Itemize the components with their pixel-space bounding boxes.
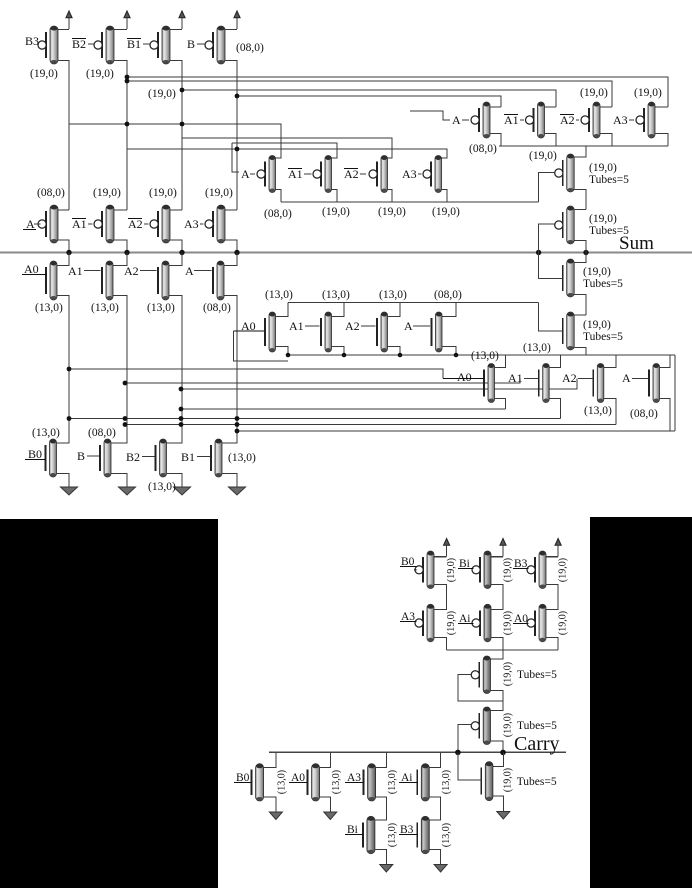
wire source mid A0 <box>276 347 289 356</box>
junction on Sum <box>179 250 184 255</box>
wire T3 drain to Carry <box>493 752 503 766</box>
wire T2 drain <box>491 709 504 711</box>
wire drain carry B0 <box>434 556 447 558</box>
wire drain carry Bi <box>491 556 503 558</box>
wire drain bottom B2 <box>167 442 183 443</box>
svg-text:A3: A3 <box>402 167 417 181</box>
wire gate feed upper right A <box>410 111 450 120</box>
bus wire net9 (A0 gate) <box>69 369 443 379</box>
transistor A1 (NMOS, under Sum) <box>102 261 113 300</box>
wire source carry bottom A3 to stacked NMOS <box>376 797 387 820</box>
transistor A2bar (PMOS, left row) <box>150 205 170 243</box>
svg-text:(13,0): (13,0) <box>584 405 612 417</box>
wire MN-T1 gate to Sum <box>539 253 563 279</box>
svg-text:B1: B1 <box>127 37 141 51</box>
VDD arrow for B2bar <box>124 11 130 29</box>
wire MP-T1 gate <box>539 173 555 203</box>
svg-text:A: A <box>185 264 194 278</box>
ground under carry B3 <box>434 854 447 872</box>
transistor B3 (PMOS) <box>38 26 58 64</box>
wire source rail upper-right row <box>499 145 668 147</box>
wire drain A3 <box>655 106 668 108</box>
junction mid source rail <box>398 353 403 358</box>
svg-text:(19,0): (19,0) <box>502 611 513 635</box>
wire drain carry bottom Ai <box>429 752 440 767</box>
wire drain mid A1 <box>332 303 345 317</box>
wire source rail mid row <box>288 354 675 356</box>
wire MP-T1 drain <box>574 146 586 157</box>
ground under carry A0 <box>324 802 337 820</box>
wire drain lower-right A2 <box>604 355 616 368</box>
wire source B down column <box>225 61 237 211</box>
svg-text:A2: A2 <box>344 167 359 181</box>
wire source carry A3 <box>434 638 447 650</box>
wire source carry bottom Ai to stacked NMOS <box>429 797 440 820</box>
wire drain carry bottom B0 <box>264 752 276 767</box>
wire drain B3 to VDD <box>58 29 69 31</box>
svg-text:A2: A2 <box>345 319 360 333</box>
svg-text:(08,0): (08,0) <box>37 187 65 199</box>
svg-text:(19,0): (19,0) <box>580 87 608 99</box>
junction on Sum <box>124 250 129 255</box>
svg-text:Tubes=5: Tubes=5 <box>517 776 557 788</box>
wire MN-T1 source <box>574 295 586 316</box>
transistor B (PMOS) <box>205 26 225 64</box>
svg-text:B: B <box>77 449 85 463</box>
svg-text:(08,0): (08,0) <box>264 208 292 220</box>
svg-text:A2: A2 <box>124 264 139 278</box>
wire source lower-right A2 <box>604 399 616 425</box>
svg-text:Tubes=5: Tubes=5 <box>583 278 623 290</box>
svg-text:Tubes=5: Tubes=5 <box>517 669 557 681</box>
transistor A3 (PMOS, upper right) <box>636 102 655 138</box>
transistor B2bar (PMOS) <box>94 26 114 64</box>
VDD arrow carry B3 <box>555 539 561 557</box>
wire drain bottom B1 <box>222 442 237 443</box>
transistor carry Bi (PMOS) <box>472 551 491 589</box>
svg-text:(19,0): (19,0) <box>503 662 514 686</box>
svg-text:A2: A2 <box>560 113 575 127</box>
ground under B0 <box>61 477 78 495</box>
black panel right <box>590 517 692 888</box>
wire source carry Bi <box>491 585 503 608</box>
VDD arrow for B3 <box>66 11 72 29</box>
wire rail down right side <box>674 355 676 431</box>
transistor B0 (NMOS, bottom row) <box>46 439 57 477</box>
wire drain B2bar to VDD <box>114 29 127 31</box>
wire drain B to VDD <box>225 29 237 31</box>
wire MP-T2 drain <box>574 209 586 211</box>
transistor A2bar (PMOS, middle row) <box>369 156 388 193</box>
transistor A1bar (PMOS, middle row) <box>313 156 332 193</box>
ground under B <box>119 477 136 495</box>
transistor A2 (NMOS, lower right) <box>593 364 604 403</box>
wire drain mid A0 <box>276 303 289 317</box>
VDD arrow carry B0 <box>444 539 450 557</box>
svg-text:(13,0): (13,0) <box>387 823 398 847</box>
wire source mid A2 <box>388 347 401 356</box>
junction Carry drain <box>500 750 506 756</box>
wire source A2 down <box>169 296 182 443</box>
transistor carry bottom B0 (NMOS) <box>252 764 264 801</box>
svg-text:B2: B2 <box>126 450 140 464</box>
svg-text:A2: A2 <box>128 217 143 231</box>
wire source A2bar <box>600 134 612 147</box>
junction mid source rail <box>286 353 291 358</box>
transistor A (NMOS, mid row) <box>432 312 443 352</box>
svg-text:(08,0): (08,0) <box>88 427 116 439</box>
wire drain bottom B0 <box>57 442 70 443</box>
wire drain A to Sum <box>224 253 237 266</box>
svg-text:(19,0): (19,0) <box>149 187 177 199</box>
svg-text:(19,0): (19,0) <box>634 87 662 99</box>
svg-text:(19,0): (19,0) <box>557 558 568 582</box>
wire carry pull-up rail <box>447 649 558 651</box>
wire MP-T1 source <box>574 190 586 210</box>
svg-text:Tubes=5: Tubes=5 <box>517 720 557 732</box>
wire drain B1bar to VDD <box>170 29 182 31</box>
transistor A (NMOS, under Sum) <box>213 261 224 300</box>
wire source left-row A3 to Sum <box>225 240 237 253</box>
VDD arrow for B <box>234 11 240 29</box>
wire T1 gate loop <box>458 675 503 701</box>
wire drain left-row A2bar <box>170 209 182 211</box>
svg-text:A1: A1 <box>289 319 304 333</box>
wire source A1 down <box>113 296 127 443</box>
carry T1 pill <box>471 656 490 694</box>
junction Carry gate <box>455 750 461 756</box>
svg-text:(13,0): (13,0) <box>147 302 175 314</box>
transistor A3 (PMOS, middle row) <box>423 156 442 193</box>
transistor A2 (NMOS, mid row) <box>377 312 388 352</box>
svg-text:(08,0): (08,0) <box>630 408 658 420</box>
transistor carry bottom B3 (NMOS) <box>417 816 429 853</box>
wire MN-T1 drain to Sum <box>574 253 586 263</box>
wire drain lower-right A1 <box>549 355 560 368</box>
svg-text:(13,0): (13,0) <box>32 427 60 439</box>
wire drain A1bar <box>545 106 557 108</box>
wire source carry bottom B3 <box>429 850 440 855</box>
wire source lower-right A <box>660 399 671 432</box>
transistor A1 (NMOS, lower right) <box>539 364 550 403</box>
wire net8 <box>127 149 447 158</box>
wire source A1bar <box>545 134 557 147</box>
transistor A0 (NMOS, mid row) <box>265 312 276 352</box>
svg-text:(13,0): (13,0) <box>322 289 350 301</box>
transistor carry bottom Bi (NMOS) <box>363 816 375 853</box>
wire source carry bottom Bi <box>375 850 386 855</box>
svg-text:(19,0): (19,0) <box>446 611 457 635</box>
transistor A3 (PMOS, left row) <box>205 205 225 243</box>
wire source left-row A1bar to Sum <box>114 240 127 253</box>
junction on Sum <box>66 250 71 255</box>
wire MN-T2 gate <box>539 303 563 332</box>
wire source carry B3 <box>546 585 558 608</box>
svg-text:A0: A0 <box>457 370 472 384</box>
wire MN-T2 drain <box>574 314 586 316</box>
ground under B2 <box>174 477 191 495</box>
wire drain carry A0 <box>546 608 558 610</box>
black panel left <box>0 519 218 888</box>
svg-text:A1: A1 <box>288 167 303 181</box>
wire T3 gate to Carry <box>458 752 481 780</box>
svg-text:A2: A2 <box>562 371 577 385</box>
svg-text:(08,0): (08,0) <box>469 143 497 155</box>
svg-text:(19,0): (19,0) <box>589 162 617 174</box>
transistor A (PMOS, middle row) <box>257 156 276 193</box>
svg-text:(13,0): (13,0) <box>441 823 452 847</box>
wire source carry bottom B0 <box>264 797 276 802</box>
wire source A <box>490 134 501 147</box>
wire drain lower-right A0 <box>495 355 506 368</box>
transistor MN-T1 pill <box>563 259 575 297</box>
wire drain left-row A1bar <box>114 209 127 211</box>
svg-text:(19,0): (19,0) <box>30 68 58 80</box>
svg-text:(19,0): (19,0) <box>583 319 611 331</box>
transistor carry A3 (PMOS) <box>415 604 434 642</box>
transistor MP-T2 pill <box>555 206 575 244</box>
bus wire net12 <box>181 408 506 410</box>
svg-text:(08,0): (08,0) <box>203 302 231 314</box>
wire drain left-row A3 <box>225 209 237 211</box>
svg-text:Carry: Carry <box>514 733 560 755</box>
svg-text:A0: A0 <box>24 262 39 276</box>
junction Sum gate-chain <box>536 250 541 255</box>
wire source bottom B <box>111 474 127 478</box>
wire source bottom B1 <box>222 474 237 478</box>
svg-text:(13,0): (13,0) <box>277 770 288 794</box>
svg-text:(19,0): (19,0) <box>148 88 176 100</box>
svg-text:(19,0): (19,0) <box>322 206 350 218</box>
bus wire net14 <box>125 424 616 426</box>
transistor A1bar (PMOS, left row) <box>94 205 114 243</box>
wire source carry bottom A0 <box>320 797 331 802</box>
wire source left-row A2bar to Sum <box>170 240 182 253</box>
svg-text:(19,0): (19,0) <box>557 611 568 635</box>
wire net6 <box>182 138 392 158</box>
svg-text:(13,0): (13,0) <box>523 342 551 354</box>
svg-text:(19,0): (19,0) <box>529 150 557 162</box>
svg-text:(13,0): (13,0) <box>91 302 119 314</box>
wire source carry B0 <box>434 585 447 608</box>
svg-text:Tubes=5: Tubes=5 <box>589 174 629 186</box>
node Carry rail <box>269 751 566 753</box>
svg-text:(13,0): (13,0) <box>265 289 293 301</box>
bus wire net4 <box>237 96 501 107</box>
svg-text:A: A <box>404 319 413 333</box>
wire gate feed row3 A <box>232 143 239 172</box>
wire drain carry B3 <box>546 556 558 558</box>
svg-text:A3: A3 <box>613 113 628 127</box>
svg-text:(19,0): (19,0) <box>378 206 406 218</box>
junction on Sum <box>234 250 239 255</box>
wire source A0 down <box>57 296 69 443</box>
wire drain rail mid row <box>288 302 539 304</box>
svg-text:A1: A1 <box>72 217 87 231</box>
svg-text:(19,0): (19,0) <box>432 206 460 218</box>
svg-text:(19,0): (19,0) <box>86 68 114 80</box>
ground under carry B0 <box>269 802 282 820</box>
wire T1 drain <box>491 650 504 659</box>
svg-text:B0: B0 <box>28 447 42 461</box>
wire drain lower-right A <box>660 355 671 368</box>
transistor carry Ai (PMOS) <box>472 604 491 642</box>
wire source bottom B2 <box>167 474 183 478</box>
wire source A1bar middle <box>332 190 338 203</box>
wire drain A1 to Sum <box>113 253 127 266</box>
transistor B1bar (PMOS) <box>150 26 170 64</box>
transistor B1 (NMOS, bottom row) <box>211 439 222 477</box>
wire drain A <box>490 106 501 108</box>
svg-text:A: A <box>241 167 250 181</box>
wire T1 source <box>491 691 504 709</box>
svg-text:B2: B2 <box>72 37 86 51</box>
wire drain A2bar <box>600 106 612 108</box>
wire gate feed mid A0 <box>234 331 289 361</box>
transistor carry bottom A3 (NMOS) <box>364 764 376 801</box>
wire T2 gate to Carry <box>458 725 472 753</box>
svg-text:(13,0): (13,0) <box>35 302 63 314</box>
ground under B1 <box>229 477 246 495</box>
svg-text:(19,0): (19,0) <box>503 713 514 737</box>
wire source carry Ai <box>491 638 503 650</box>
svg-text:Tubes=5: Tubes=5 <box>589 225 629 237</box>
wire drain carry bottom A3 <box>376 752 387 767</box>
wire net5 <box>69 124 281 158</box>
wire drain carry bottom B3 <box>429 819 440 822</box>
svg-text:A: A <box>26 217 35 231</box>
svg-text:(13,0): (13,0) <box>228 452 256 464</box>
wire drain carry Ai <box>491 608 503 610</box>
svg-text:A1: A1 <box>68 264 83 278</box>
transistor carry bottom Ai (NMOS) <box>417 764 429 801</box>
junction mid source rail <box>454 353 459 358</box>
wire source A3 middle <box>442 190 448 203</box>
transistor MN-T2 pill <box>563 312 575 350</box>
wire source mid A1 <box>332 347 345 356</box>
wire source mid A <box>442 347 456 356</box>
wire source A3 <box>655 134 668 147</box>
svg-text:(19,0): (19,0) <box>502 558 513 582</box>
svg-text:A: A <box>452 113 461 127</box>
transistor A1 (NMOS, mid row) <box>321 312 332 352</box>
wire MP-T2 source to Sum <box>574 241 586 253</box>
wire drain carry bottom Bi <box>375 819 386 822</box>
wire drain A2 to Sum <box>169 253 182 266</box>
wire source bottom B0 <box>57 474 70 478</box>
wire drain mid A <box>442 303 456 317</box>
bus wire net13 <box>69 418 561 420</box>
transistor A (PMOS, upper right) <box>471 102 490 138</box>
bus wire net15 <box>237 430 675 432</box>
transistor B (NMOS, bottom row) <box>100 439 111 477</box>
svg-text:Tubes=5: Tubes=5 <box>583 331 623 343</box>
wire T3 source <box>493 796 503 801</box>
svg-text:(13,0): (13,0) <box>379 289 407 301</box>
transistor MP-T1 pill <box>555 154 575 192</box>
wire source lower-right A1 <box>549 399 560 419</box>
wire source A2bar middle <box>388 190 393 203</box>
svg-text:A: A <box>622 371 631 385</box>
wire drain left-row A <box>58 209 69 211</box>
svg-text:(13,0): (13,0) <box>148 481 176 493</box>
svg-text:(08,0): (08,0) <box>236 42 264 54</box>
VDD arrow for B1bar <box>179 11 185 29</box>
wire source B1bar down column <box>170 61 182 211</box>
svg-text:(13,0): (13,0) <box>331 770 342 794</box>
transistor A1bar (PMOS, upper right) <box>526 102 545 138</box>
svg-text:B1: B1 <box>181 450 195 464</box>
transistor A0 (NMOS, lower right) <box>484 364 495 403</box>
svg-text:(19,0): (19,0) <box>589 213 617 225</box>
svg-text:B3: B3 <box>25 34 39 48</box>
wire MP-T2 gate to Sum <box>539 224 555 253</box>
bus wire net1 <box>127 77 668 107</box>
svg-text:(19,0): (19,0) <box>503 768 514 792</box>
transistor A2bar (PMOS, upper right) <box>581 102 600 138</box>
svg-text:B: B <box>187 37 195 51</box>
wire drain bottom B <box>111 442 127 443</box>
transistor A (PMOS, left row) <box>38 205 58 243</box>
wire drain A0 to Sum <box>57 253 69 266</box>
svg-text:(13,0): (13,0) <box>387 770 398 794</box>
wire source rail middle row <box>281 201 539 203</box>
svg-text:A1: A1 <box>508 371 523 385</box>
svg-text:(19,0): (19,0) <box>93 187 121 199</box>
wire source lower-right A0 <box>495 399 506 410</box>
ground under T3 <box>497 801 510 819</box>
svg-text:(19,0): (19,0) <box>205 187 233 199</box>
wire net7 <box>232 143 337 158</box>
wire drain carry A3 <box>434 608 447 610</box>
transistor carry A0 (PMOS) <box>527 604 546 642</box>
transistor carry B0 (PMOS) <box>415 551 434 589</box>
wire T2 source to Carry <box>491 741 504 752</box>
svg-text:(19,0): (19,0) <box>446 558 457 582</box>
wire source B3 down column <box>58 61 69 211</box>
bus wire net10 (A1 gate) <box>125 379 520 384</box>
junction mid source rail <box>342 353 347 358</box>
node Sum rail <box>0 251 692 253</box>
VDD arrow carry Bi <box>500 539 506 557</box>
wire down to T1 <box>502 650 504 659</box>
svg-text:A1: A1 <box>504 113 519 127</box>
wire source A middle <box>276 190 282 203</box>
wire source left-row A to Sum <box>58 240 69 253</box>
transistor A (NMOS, lower right) <box>649 364 660 403</box>
wire MN-T2 source <box>574 348 586 356</box>
wire drain mid A2 <box>388 303 401 317</box>
carry T3 pill <box>481 762 493 801</box>
bus wire net2 <box>127 81 612 107</box>
wire drain carry bottom A0 <box>320 752 331 767</box>
transistor A2 (NMOS, under Sum) <box>158 261 169 300</box>
ground under carry Bi <box>380 854 393 872</box>
junction Sum right stack <box>583 250 588 255</box>
bus wire net11 (A2 gate) <box>181 379 577 390</box>
wire source carry A0 <box>546 638 558 650</box>
svg-text:A3: A3 <box>184 217 199 231</box>
wire source A down <box>224 296 237 443</box>
svg-text:(13,0): (13,0) <box>441 770 452 794</box>
transistor carry B3 (PMOS) <box>527 551 546 589</box>
svg-text:(08,0): (08,0) <box>434 289 462 301</box>
svg-text:(13,0): (13,0) <box>471 350 499 362</box>
carry T2 pill <box>471 707 490 745</box>
svg-text:(19,0): (19,0) <box>583 266 611 278</box>
transistor A0 (NMOS, under Sum) <box>46 261 57 300</box>
wire source B2bar down column <box>114 61 127 211</box>
